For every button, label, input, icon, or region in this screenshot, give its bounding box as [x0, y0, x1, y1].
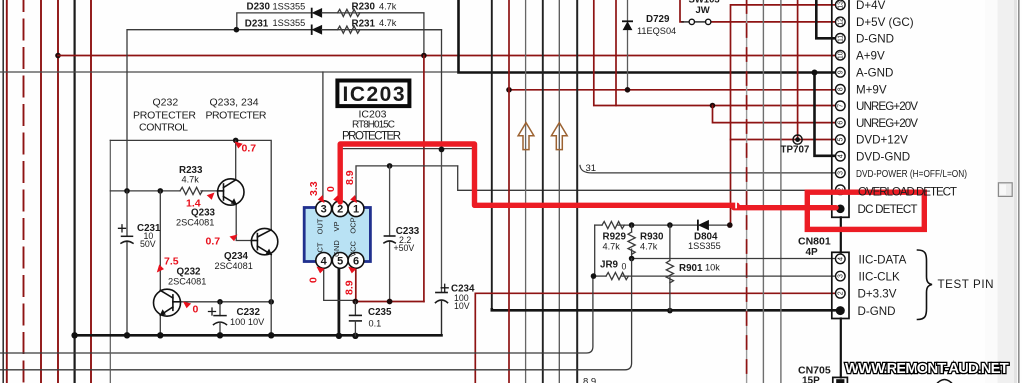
- svg-text:0: 0: [325, 186, 337, 192]
- wire center grey V558: [558, 0, 560, 383]
- node R930 top: [629, 222, 635, 228]
- wire black bus V5: [73, 0, 75, 383]
- svg-text:R231: R231: [352, 18, 376, 29]
- wire red bus V1: [6, 0, 8, 383]
- wire Q232 emitter to bus: [159, 315, 161, 335]
- svg-text:R230: R230: [352, 2, 376, 13]
- wire IIC-CLK row with JR9: [594, 275, 607, 277]
- diode D231: [312, 25, 322, 34]
- capacitor C233: [384, 236, 395, 243]
- wire dashed red V746: [746, 0, 748, 383]
- arrow orange 1: [518, 123, 534, 150]
- node bus Q232e: [157, 332, 163, 338]
- svg-text:CT: CT: [316, 242, 325, 252]
- wire C234 vertical: [441, 149, 443, 292]
- wire grey horizontal y72 left: [0, 71, 459, 73]
- node bus IC gnd: [336, 333, 342, 339]
- svg-text:D+4V: D+4V: [856, 0, 886, 12]
- svg-text:IIC-DATA: IIC-DATA: [859, 253, 907, 266]
- wire R929 D804 row: [595, 224, 602, 226]
- connector CN7 pin numbers: [838, 1, 845, 192]
- svg-text:CONTROL: CONTROL: [139, 122, 188, 134]
- wire IC pin4 CT down: [324, 268, 356, 301]
- connector CN7 pin circles: [836, 0, 846, 195]
- wire Q232 base row: [180, 301, 271, 303]
- svg-text:UNREG+20V: UNREG+20V: [856, 100, 918, 113]
- svg-text:DVD-GND: DVD-GND: [856, 150, 910, 163]
- svg-text:10V: 10V: [454, 301, 470, 311]
- wire red UNREG+20V row pin6: [713, 106, 837, 123]
- svg-text:DC DETECT: DC DETECT: [858, 203, 918, 216]
- node bus Q234e: [268, 332, 274, 338]
- capacitor C232: [214, 316, 227, 325]
- wire C232 lower: [219, 323, 221, 336]
- svg-text:1SS355: 1SS355: [273, 1, 306, 11]
- svg-text:IC203: IC203: [343, 83, 405, 106]
- svg-text:1.4: 1.4: [186, 198, 201, 210]
- CN801 pin circles: [836, 254, 846, 298]
- svg-text:+50V: +50V: [394, 243, 415, 253]
- svg-text:7: 7: [838, 104, 845, 108]
- node D230 net red junction: [421, 53, 427, 59]
- wire grey D729 drop: [627, 0, 629, 90]
- wire Q233 emitter to Q234 base: [236, 204, 251, 240]
- svg-text:2: 2: [337, 204, 343, 216]
- svg-text:5: 5: [838, 138, 845, 142]
- switch JW circles: [689, 19, 694, 24]
- resistor R930 vertical: [631, 225, 633, 232]
- wire C233 top: [389, 166, 391, 236]
- svg-text:D729: D729: [646, 14, 670, 25]
- wire thick D-GND row: [492, 309, 836, 310]
- svg-text:4.7k: 4.7k: [603, 242, 621, 252]
- svg-text:UNREG+20V: UNREG+20V: [856, 117, 918, 130]
- IC203 pin 3: [316, 201, 332, 217]
- svg-text:OVERLOAD DETECT: OVERLOAD DETECT: [858, 186, 957, 199]
- test pin brace: [918, 250, 933, 320]
- node Q233 collector top: [233, 138, 239, 144]
- svg-text:VP: VP: [332, 221, 341, 231]
- IC203 pin numbers: [321, 204, 359, 268]
- scrollbar border line: [1018, 0, 1020, 383]
- svg-text:7.5: 7.5: [164, 256, 179, 268]
- wire red bus V2 dashed: [23, 0, 25, 383]
- svg-text:3: 3: [838, 274, 845, 278]
- plus sign C232: [209, 308, 216, 315]
- svg-text:100 10V: 100 10V: [230, 317, 265, 327]
- TP707 symbol: [793, 135, 802, 144]
- wire red D+5V to pin: [711, 21, 836, 23]
- svg-text:1SS355: 1SS355: [688, 241, 721, 251]
- wire center grey V525: [525, 0, 527, 383]
- svg-text:CN801: CN801: [798, 235, 831, 247]
- node D804 red junction: [727, 222, 733, 228]
- svg-text:11EQS04: 11EQS04: [637, 26, 676, 36]
- wire C234 to ground bus: [441, 302, 443, 336]
- wire dark red D230 net down: [423, 56, 425, 302]
- svg-text:8.9: 8.9: [344, 170, 356, 185]
- capacitor C234: [436, 293, 448, 303]
- svg-text:M+9V: M+9V: [856, 83, 887, 96]
- svg-text:1SS355: 1SS355: [273, 18, 306, 28]
- node bus C231: [124, 332, 130, 338]
- wire dark red V509: [508, 0, 510, 383]
- svg-text:IC203: IC203: [358, 109, 386, 121]
- svg-text:4P: 4P: [806, 247, 819, 258]
- svg-text:WWW.REMONT-AUD.NET: WWW.REMONT-AUD.NET: [845, 360, 1009, 377]
- svg-text:6: 6: [838, 121, 845, 125]
- wire C231 lower: [126, 241, 128, 335]
- svg-text:2SC4081: 2SC4081: [176, 218, 214, 228]
- node R233 C231 junction: [124, 188, 130, 194]
- IC203 title box: [337, 81, 409, 107]
- resistor R231: [322, 29, 338, 31]
- node Q232 collector junction: [158, 188, 164, 194]
- connector CN705 body top: [833, 377, 848, 383]
- svg-text:A-GND: A-GND: [856, 66, 893, 79]
- wire red D+5V switch feed: [680, 0, 683, 22]
- node R930 bottom: [629, 256, 635, 262]
- svg-text:1: 1: [353, 204, 359, 216]
- wire thick DVD-GND link: [815, 73, 837, 156]
- wire Q234 emitter down: [270, 255, 272, 336]
- svg-text:13: 13: [838, 1, 845, 9]
- svg-text:D+3.3V: D+3.3V: [858, 288, 897, 301]
- wire left-edge black vertical: [2, 0, 4, 383]
- svg-text:Q232: Q232: [153, 97, 179, 109]
- svg-text:9: 9: [838, 70, 845, 74]
- bottom right small arc: [937, 380, 953, 383]
- wire red UNREG+20V row pin7: [594, 0, 836, 106]
- wire red bus V6: [90, 0, 92, 383]
- svg-text:VCC: VCC: [349, 241, 358, 257]
- wire bottom row y353 tail: [587, 352, 593, 354]
- capacitor C235: [350, 315, 362, 321]
- node D729 junction: [625, 87, 631, 93]
- node JR9 left: [591, 273, 597, 279]
- wire IC pin5 GND thick: [337, 268, 340, 336]
- wire center black V492: [491, 0, 493, 309]
- svg-text:C235: C235: [368, 307, 392, 318]
- wire thick A-GND drop: [459, 0, 837, 73]
- wire red M+9V row: [509, 89, 836, 91]
- resistor JR9: [606, 273, 628, 280]
- wire C231 upper: [126, 191, 128, 236]
- capacitor C231: [121, 236, 133, 243]
- svg-text:JW: JW: [696, 5, 710, 16]
- wire center black V577: [576, 0, 578, 383]
- transistor Q232: [154, 289, 181, 316]
- wire R233 row: [110, 190, 180, 192]
- wire Q232 collector vertical: [159, 191, 161, 290]
- scrollbar thumb: [998, 183, 1012, 197]
- svg-text:4.7k: 4.7k: [182, 174, 200, 184]
- wire R929 left link: [594, 225, 596, 276]
- node VCC C235: [353, 299, 359, 305]
- svg-text:2SC4081: 2SC4081: [215, 261, 253, 271]
- svg-text:0.7: 0.7: [206, 236, 221, 248]
- svg-text:RT8H015C: RT8H015C: [352, 120, 395, 131]
- svg-text:0: 0: [193, 304, 199, 316]
- svg-text:0: 0: [308, 277, 320, 283]
- IC203 pin 6: [348, 253, 364, 269]
- IC203 pin 5: [332, 253, 348, 269]
- svg-text:CN705: CN705: [798, 364, 831, 376]
- highlight white nick: [735, 202, 737, 208]
- svg-text:Q233, 234: Q233, 234: [210, 97, 259, 109]
- wire protecter top edge: [110, 140, 271, 229]
- node D-GND R901 junction: [667, 308, 673, 314]
- diode D804: [698, 220, 709, 229]
- diode D729 vertical: [623, 21, 632, 30]
- wire D231 row: [127, 30, 311, 191]
- resistor R901 vertical: [669, 225, 671, 260]
- wire red TP707 drop: [797, 0, 799, 140]
- node bus 74: [71, 332, 77, 338]
- svg-text:2SC4081: 2SC4081: [168, 277, 206, 287]
- IC203 pin 2: [332, 201, 348, 217]
- wire OCP net: [356, 166, 458, 202]
- wire red bus V4: [57, 0, 59, 383]
- svg-text:D+5V (GC): D+5V (GC): [856, 16, 914, 29]
- diode D230: [312, 9, 322, 18]
- wire red VCC node row: [355, 301, 424, 303]
- wire D230 row right to corner: [322, 13, 424, 56]
- wire IIC-DATA row: [632, 258, 836, 260]
- wire thick D-GND pin11: [816, 0, 836, 38]
- svg-text:8.9: 8.9: [344, 280, 356, 295]
- wire 8 drop from JR9: [0, 276, 593, 353]
- node Q234 emitter junction: [268, 299, 274, 305]
- wire DC DETECT drop to CN801: [840, 217, 842, 252]
- wire VP net under highlight: [340, 149, 476, 205]
- svg-text:PROTECTER: PROTECTER: [206, 109, 267, 121]
- resistor R233: [180, 187, 202, 194]
- node VCC C233: [387, 299, 393, 305]
- wire dark red V616: [615, 0, 617, 106]
- node bus C232: [217, 332, 223, 338]
- CN801 pin numbers: [838, 257, 845, 295]
- svg-text:3: 3: [321, 204, 327, 216]
- wire D231 row right to corner: [322, 30, 441, 149]
- svg-text:3.3: 3.3: [308, 181, 320, 196]
- svg-text:JR9: JR9: [600, 259, 619, 270]
- node M+9V junction: [506, 87, 512, 93]
- svg-text:10: 10: [838, 51, 845, 59]
- node bus C235: [352, 333, 358, 339]
- wire 9 drop from R930: [0, 259, 632, 370]
- svg-text:4: 4: [321, 255, 328, 267]
- wire D230 row: [237, 13, 311, 30]
- svg-text:4.7k: 4.7k: [379, 1, 397, 11]
- wire center black V543: [542, 0, 544, 383]
- svg-text:4: 4: [838, 257, 845, 261]
- wire protecter box left edge: [109, 140, 111, 383]
- wire grey V779: [780, 0, 782, 383]
- IC203 pin names rotated: [316, 217, 358, 257]
- svg-text:OUT: OUT: [316, 218, 325, 234]
- pin DC DETECT filled: [836, 205, 845, 214]
- connector CN7 main body: [832, 0, 849, 217]
- svg-text:R901: R901: [679, 263, 703, 274]
- wire IC pin6 VCC red: [355, 268, 357, 302]
- svg-text:2: 2: [838, 291, 845, 295]
- scrollbar track: [985, 0, 1018, 383]
- wire CN801 to CN705: [840, 319, 842, 378]
- resistor R230: [322, 12, 338, 14]
- highlight red box DC DETECT: [807, 192, 924, 229]
- svg-text:12: 12: [838, 18, 845, 26]
- IC203 pin 1: [348, 201, 364, 217]
- wire red A+9V row: [58, 55, 836, 57]
- IC203 pin 4: [316, 253, 332, 269]
- svg-text:PROTECTER: PROTECTER: [133, 109, 196, 121]
- svg-text:D-GND: D-GND: [858, 305, 896, 318]
- svg-text:3: 3: [838, 171, 845, 175]
- node C232 top: [217, 299, 223, 305]
- svg-text:IIC-CLK: IIC-CLK: [859, 271, 900, 284]
- highlight red path: [340, 144, 737, 205]
- svg-text:8 9: 8 9: [583, 377, 596, 383]
- svg-text:15P: 15P: [802, 376, 820, 383]
- svg-text:4.7k: 4.7k: [640, 242, 658, 252]
- svg-text:PROTECTER: PROTECTER: [342, 131, 401, 143]
- IC203 blue body: [304, 208, 370, 262]
- wire C233 bottom: [389, 242, 391, 302]
- svg-text:0.1: 0.1: [369, 319, 382, 329]
- wire red bus V3: [40, 0, 42, 383]
- svg-text:31: 31: [586, 163, 597, 174]
- svg-text:A+9V: A+9V: [856, 49, 885, 62]
- node A+9V feed junction: [55, 53, 61, 59]
- wire red D+4V row: [731, 5, 837, 225]
- svg-text:11: 11: [838, 35, 845, 42]
- transistor Q233: [218, 179, 244, 205]
- svg-text:50V: 50V: [140, 239, 156, 249]
- wire Q233 collector up: [235, 140, 237, 180]
- node D231 junction: [234, 27, 240, 33]
- transistor Q234: [251, 228, 277, 254]
- svg-text:4: 4: [838, 154, 845, 158]
- wire red DVD+12V row: [731, 139, 837, 141]
- connector labels right column: [856, 0, 994, 318]
- connector CN801 body: [832, 252, 849, 318]
- svg-text:10k: 10k: [705, 262, 720, 272]
- ground bus thick: [74, 334, 442, 337]
- svg-text:0: 0: [622, 261, 627, 271]
- node VP wire junction: [439, 147, 445, 153]
- wire OVERLOAD DETECT row: [458, 166, 836, 190]
- svg-text:D231: D231: [245, 18, 269, 29]
- svg-text:D-GND: D-GND: [856, 32, 894, 45]
- svg-text:D230: D230: [247, 2, 271, 13]
- wire C235 lower: [354, 321, 356, 336]
- wire C235 upper: [354, 302, 356, 316]
- svg-text:TEST PIN: TEST PIN: [938, 278, 994, 291]
- wire pin3 OUT vertical: [322, 72, 324, 202]
- plus sign C231: [119, 225, 126, 232]
- wire DVD-POWER row 31: [580, 166, 836, 173]
- svg-text:GND: GND: [332, 240, 341, 257]
- plus sign C234: [441, 284, 448, 291]
- svg-text:DVD-POWER (H=OFF/L=ON): DVD-POWER (H=OFF/L=ON): [856, 169, 967, 180]
- svg-text:4.7k: 4.7k: [379, 18, 397, 28]
- CN801 pin1 filled: [836, 306, 845, 315]
- arrow orange 2: [551, 123, 567, 150]
- node A-GND DVD-GND junction: [812, 70, 818, 76]
- node OCP C233 junction: [387, 163, 393, 169]
- resistor R929: [602, 222, 624, 229]
- wire grey V764: [762, 0, 764, 383]
- node R901 top: [667, 222, 673, 228]
- svg-text:TP707: TP707: [781, 145, 810, 156]
- svg-text:8: 8: [838, 87, 845, 91]
- svg-text:0.7: 0.7: [242, 143, 257, 155]
- svg-text:OCP: OCP: [349, 217, 358, 233]
- node UNREG branch junction: [710, 103, 716, 109]
- wire C232 upper: [219, 302, 221, 316]
- svg-text:DVD+12V: DVD+12V: [856, 134, 908, 147]
- wire dark red D+3.3V: [475, 293, 836, 383]
